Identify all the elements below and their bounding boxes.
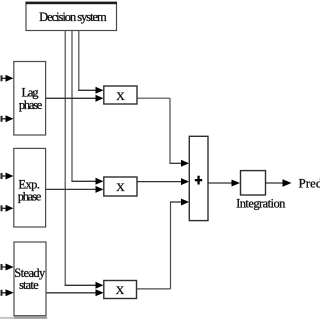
input arrow 2 into Exp. phase (1, 205, 14, 212)
svg-text:state: state (19, 278, 39, 292)
block Exp. phase (14, 148, 46, 227)
block Lag phase (14, 62, 46, 136)
wire decision line C horizontal to X3 (65, 284, 97, 286)
wire X3 output vertical up (170, 202, 172, 289)
wire sum output to Integration (208, 182, 233, 184)
svg-text:Decision system: Decision system (39, 10, 107, 24)
wire Lag phase output to X1 (46, 97, 97, 99)
wire X3 output into sum (170, 201, 183, 203)
input arrow 1 into Lag phase (1, 75, 14, 82)
arrow into sum input 2 (181, 178, 189, 185)
wire X1 output into sum (169, 162, 183, 164)
svg-text:X: X (116, 180, 125, 194)
arrow into X2 upper (96, 178, 104, 185)
svg-text:phase: phase (18, 190, 42, 204)
arrow into sum input 3 (181, 199, 189, 206)
grey scan bar bottom-left edge (0, 317, 14, 319)
arrow into X3 upper (96, 282, 104, 289)
wire decision line A horizontal to X1 (78, 89, 97, 91)
arrow into X1 upper (96, 87, 104, 94)
wire Integration output (266, 182, 285, 184)
wire Steady state output to X3 (46, 292, 97, 294)
multiplier X3 (104, 281, 137, 299)
svg-text:X: X (116, 283, 125, 297)
arrow output Prediction (283, 179, 292, 186)
arrow into Integration (232, 180, 241, 187)
block Decision system (26, 2, 118, 31)
svg-text:Integration: Integration (236, 197, 286, 211)
input arrow 1 into Exp. phase (1, 173, 14, 180)
wire X1 output horizontal (137, 97, 170, 99)
grey scan bar under Steady state (14, 316, 47, 318)
wire X1 output vertical down (169, 98, 171, 163)
wire decision line B horizontal to X2 (71, 180, 97, 182)
arrow into X3 lower (96, 289, 104, 296)
wire decision line C vertical (64, 31, 66, 285)
svg-text:X: X (116, 89, 125, 103)
wire decision line B vertical (71, 31, 73, 182)
arrow into sum input 1 (181, 160, 189, 167)
svg-text:phase: phase (19, 98, 43, 112)
wire decision line A vertical (78, 31, 80, 91)
block Steady state (14, 242, 46, 316)
summing block + (189, 136, 208, 220)
wire X3 output horizontal (137, 288, 171, 290)
arrow into X1 lower (96, 95, 104, 102)
wire Exp. phase output to X2 (46, 188, 97, 190)
input arrow 1 into Steady state (1, 264, 14, 271)
input arrow 2 into Lag phase (1, 115, 14, 122)
block Integration (241, 171, 266, 195)
multiplier X1 (104, 86, 137, 104)
svg-text:Predi: Predi (299, 176, 320, 191)
arrow into X2 lower (96, 186, 104, 193)
wire X2 output into sum (137, 181, 183, 183)
input arrow 2 into Steady state (1, 289, 14, 296)
multiplier X2 (104, 177, 137, 196)
